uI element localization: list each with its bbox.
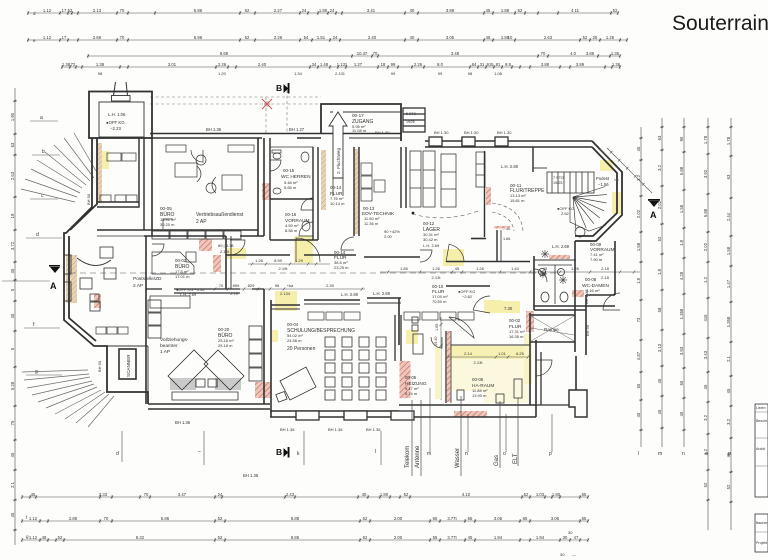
room SCANNER bbox=[107, 346, 148, 404]
svg-text:84: 84 bbox=[472, 62, 477, 67]
svg-text:45: 45 bbox=[10, 512, 15, 517]
svg-text:3.92: 3.92 bbox=[703, 169, 708, 178]
room LAGER bbox=[471, 151, 501, 262]
svg-text:2.02: 2.02 bbox=[636, 209, 641, 218]
seminar tables grid bbox=[325, 337, 386, 400]
svg-text:ELT: ELT bbox=[513, 453, 519, 464]
dimension row bottom1 bbox=[21, 495, 589, 498]
section marker A right bbox=[648, 199, 660, 220]
svg-text:7 STG: 7 STG bbox=[553, 176, 564, 180]
svg-text:45: 45 bbox=[486, 35, 491, 40]
chair hatch marks bbox=[171, 378, 240, 390]
corridor dashed centerline bbox=[70, 272, 560, 274]
svg-text:00-12: 00-12 bbox=[423, 221, 435, 226]
corridor walls bbox=[226, 236, 530, 289]
svg-text:00-20: 00-20 bbox=[218, 327, 230, 332]
room FLUR 00-02 and Rampe bbox=[490, 286, 575, 352]
svg-text:5.88: 5.88 bbox=[679, 166, 684, 175]
svg-text:l: l bbox=[638, 451, 639, 457]
svg-text:2.86: 2.86 bbox=[69, 516, 78, 521]
svg-text:10.14 m: 10.14 m bbox=[330, 201, 345, 206]
svg-text:13.90 m: 13.90 m bbox=[472, 393, 487, 398]
svg-text:1.26: 1.26 bbox=[255, 258, 264, 263]
svg-text:Bauherr: Bauherr bbox=[756, 521, 768, 525]
svg-text:52: 52 bbox=[703, 482, 708, 487]
svg-text:45: 45 bbox=[486, 8, 491, 13]
svg-text:24: 24 bbox=[218, 492, 223, 497]
svg-text:00-05: 00-05 bbox=[160, 206, 172, 211]
svg-text:—: — bbox=[572, 552, 576, 557]
window pilasters bottom schulung bbox=[296, 411, 414, 420]
svg-text:1.8: 1.8 bbox=[636, 277, 641, 283]
svg-text:899: 899 bbox=[233, 283, 240, 288]
svg-text:BH 1.30: BH 1.30 bbox=[434, 130, 449, 135]
svg-text:52: 52 bbox=[68, 8, 73, 13]
svg-text:3.06: 3.06 bbox=[494, 516, 503, 521]
FLUR/TREPPE dashed door arcs bbox=[492, 203, 523, 231]
svg-text:B: B bbox=[276, 447, 282, 457]
svg-text:52: 52 bbox=[218, 516, 223, 521]
svg-text:2.69: 2.69 bbox=[93, 35, 102, 40]
svg-text:00-10: 00-10 bbox=[432, 284, 444, 289]
svg-text:3.06: 3.06 bbox=[551, 516, 560, 521]
svg-text:2.39: 2.39 bbox=[326, 283, 335, 288]
svg-text:2.62: 2.62 bbox=[561, 211, 570, 216]
svg-text:n: n bbox=[682, 451, 685, 457]
svg-text:52: 52 bbox=[363, 516, 368, 521]
room ZUGANG bbox=[321, 104, 401, 141]
svg-text:3.88: 3.88 bbox=[446, 8, 455, 13]
svg-text:BH 1.36: BH 1.36 bbox=[280, 427, 295, 432]
svg-text:25.18 m: 25.18 m bbox=[218, 343, 233, 348]
svg-text:8.0: 8.0 bbox=[437, 62, 443, 67]
svg-text:24.58 m: 24.58 m bbox=[287, 338, 302, 343]
svg-text:52: 52 bbox=[404, 492, 409, 497]
lightwell room top-left bbox=[89, 92, 152, 139]
svg-text:2 AP: 2 AP bbox=[196, 219, 207, 225]
svg-text:96: 96 bbox=[275, 283, 280, 288]
svg-text:1.12: 1.12 bbox=[43, 35, 52, 40]
svg-text:00-16: 00-16 bbox=[285, 212, 297, 217]
svg-text:2.00: 2.00 bbox=[394, 535, 403, 540]
svg-text:2. Fluchtweg: 2. Fluchtweg bbox=[336, 148, 341, 174]
cabinet column right bbox=[148, 300, 262, 381]
svg-text:65: 65 bbox=[582, 492, 587, 497]
svg-text:1.58: 1.58 bbox=[679, 204, 684, 213]
svg-text:00-02: 00-02 bbox=[175, 258, 187, 263]
EDV racks bbox=[361, 163, 385, 201]
svg-text:2.43: 2.43 bbox=[286, 492, 295, 497]
svg-text:d: d bbox=[116, 451, 119, 457]
svg-text:2.13t: 2.13t bbox=[432, 275, 442, 280]
dimension row top1 bbox=[27, 11, 619, 14]
svg-text:55: 55 bbox=[433, 535, 438, 540]
svg-text:A: A bbox=[50, 281, 57, 291]
top exterior wall west section bbox=[150, 134, 321, 139]
svg-text:+ka: +ka bbox=[287, 283, 294, 288]
svg-text:1.8: 1.8 bbox=[679, 239, 684, 245]
svg-text:L.H. 2.69: L.H. 2.69 bbox=[373, 291, 391, 296]
rooms Poststelle and BUERO 00-02 bbox=[97, 230, 144, 236]
svg-text:8.58 m: 8.58 m bbox=[285, 228, 298, 233]
svg-text:2.02: 2.02 bbox=[703, 242, 708, 251]
svg-text:2.18: 2.18 bbox=[601, 266, 610, 271]
svg-text:65: 65 bbox=[433, 516, 438, 521]
svg-text:30: 30 bbox=[560, 552, 565, 557]
svg-text:L.H. 2.69: L.H. 2.69 bbox=[341, 292, 359, 297]
svg-text:52: 52 bbox=[524, 492, 529, 497]
room EDV-TECHNIK bbox=[359, 147, 406, 236]
svg-text:915: 915 bbox=[487, 62, 495, 67]
svg-text:BH 90: BH 90 bbox=[97, 360, 102, 372]
cabinet row below office bbox=[152, 231, 241, 239]
svg-text:3.2: 3.2 bbox=[726, 418, 731, 424]
svg-text:40: 40 bbox=[410, 8, 415, 13]
svg-text:1.08: 1.08 bbox=[494, 71, 503, 76]
svg-text:BH 1.36: BH 1.36 bbox=[366, 427, 381, 432]
svg-text:1.2: 1.2 bbox=[703, 276, 708, 282]
svg-text:24: 24 bbox=[330, 8, 335, 13]
svg-text:o: o bbox=[503, 451, 506, 457]
bottom grid letters bbox=[122, 388, 552, 465]
svg-text:4.87: 4.87 bbox=[636, 351, 641, 360]
svg-text:17.01 m: 17.01 m bbox=[175, 274, 190, 279]
svg-text:g: g bbox=[35, 369, 38, 375]
svg-text:Projekt: Projekt bbox=[756, 541, 767, 545]
svg-text:72: 72 bbox=[71, 62, 76, 67]
exterior spiral stair top bbox=[114, 82, 128, 96]
top exterior wall with pilasters bbox=[425, 141, 592, 147]
svg-text:45: 45 bbox=[636, 146, 641, 151]
room Vertriebsaussendienst walls bbox=[144, 138, 264, 236]
svg-text:00-02: 00-02 bbox=[509, 318, 521, 323]
bay windows west bbox=[64, 255, 71, 301]
svg-text:45: 45 bbox=[468, 535, 473, 540]
yellow wash HA-RAUM corridor bbox=[446, 345, 530, 403]
svg-text:5 STG: 5 STG bbox=[406, 112, 416, 116]
title block tables bbox=[755, 404, 768, 552]
svg-text:o: o bbox=[705, 451, 708, 457]
svg-text:2.18: 2.18 bbox=[601, 275, 610, 280]
svg-text:2.131: 2.131 bbox=[335, 71, 346, 76]
svg-text:3.43: 3.43 bbox=[703, 350, 708, 359]
svg-text:70: 70 bbox=[120, 35, 125, 40]
dimension row top2 bbox=[27, 38, 628, 41]
svg-text:3.93: 3.93 bbox=[679, 346, 684, 355]
svg-text:24: 24 bbox=[333, 35, 338, 40]
utility lines Telekom Antenne Wasser Gas ELT bbox=[412, 396, 518, 476]
svg-text:00-04: 00-04 bbox=[287, 322, 299, 327]
svg-text:45: 45 bbox=[679, 411, 684, 416]
svg-text:2.40: 2.40 bbox=[368, 35, 377, 40]
svg-text:00-09: 00-09 bbox=[590, 242, 602, 247]
svg-text:Souterrain: Souterrain bbox=[672, 12, 768, 35]
svg-text:8.32: 8.32 bbox=[136, 535, 145, 540]
svg-text:52: 52 bbox=[58, 535, 63, 540]
exterior wall west (office block left) bbox=[64, 138, 148, 404]
HA-RAUM dim line bbox=[447, 355, 530, 358]
svg-text:Gas: Gas bbox=[494, 455, 500, 466]
svg-text:3.01: 3.01 bbox=[168, 62, 177, 67]
svg-text:3.2: 3.2 bbox=[703, 414, 708, 420]
svg-text:1.80: 1.80 bbox=[380, 492, 389, 497]
svg-text:1.38: 1.38 bbox=[96, 62, 105, 67]
svg-text:3.33: 3.33 bbox=[99, 492, 108, 497]
svg-text:00-14: 00-14 bbox=[330, 185, 342, 190]
svg-text:7.90 m: 7.90 m bbox=[590, 257, 603, 262]
svg-text:Archit: Archit bbox=[756, 447, 765, 451]
svg-text:2.13t: 2.13t bbox=[474, 360, 484, 365]
svg-text:63: 63 bbox=[657, 135, 662, 140]
svg-text:–: – bbox=[198, 449, 201, 455]
svg-text:70: 70 bbox=[219, 283, 224, 288]
svg-text:1 AP: 1 AP bbox=[160, 349, 170, 355]
turret corner top-right bbox=[575, 141, 622, 241]
svg-text:BH 1.30: BH 1.30 bbox=[464, 130, 479, 135]
svg-text:58: 58 bbox=[657, 307, 662, 312]
svg-text:2.26: 2.26 bbox=[414, 62, 423, 67]
svg-text:2.00: 2.00 bbox=[384, 234, 393, 239]
svg-text:3.47: 3.47 bbox=[178, 492, 187, 497]
svg-text:BH 1.36: BH 1.36 bbox=[328, 427, 343, 432]
svg-text:BH 1.36: BH 1.36 bbox=[206, 127, 222, 132]
svg-text:23.25 m: 23.25 m bbox=[334, 265, 349, 270]
svg-text:16.35 m: 16.35 m bbox=[509, 334, 524, 339]
svg-text:11.36 m: 11.36 m bbox=[364, 221, 379, 226]
svg-text:54: 54 bbox=[304, 35, 309, 40]
svg-text:52: 52 bbox=[726, 484, 731, 489]
svg-text:40: 40 bbox=[410, 35, 415, 40]
svg-text:L.H. 2.69: L.H. 2.69 bbox=[423, 243, 440, 248]
yellow highlight patches bbox=[99, 151, 109, 169]
svg-text:1.34: 1.34 bbox=[294, 71, 303, 76]
svg-text:00-06: 00-06 bbox=[472, 377, 484, 382]
svg-text:0.74 m: 0.74 m bbox=[405, 391, 418, 396]
svg-text:4.11: 4.11 bbox=[571, 8, 580, 13]
svg-text:65: 65 bbox=[523, 516, 528, 521]
svg-text:3.05: 3.05 bbox=[446, 35, 455, 40]
svg-text:4.28: 4.28 bbox=[679, 271, 684, 280]
svg-text:45: 45 bbox=[726, 388, 731, 393]
svg-text:65: 65 bbox=[582, 516, 587, 521]
svg-text:00-05: 00-05 bbox=[405, 375, 417, 380]
svg-text:2.44: 2.44 bbox=[726, 212, 731, 221]
svg-text:3.77t: 3.77t bbox=[447, 535, 457, 540]
svg-text:SCANNER: SCANNER bbox=[126, 354, 131, 377]
svg-text:19/25: 19/25 bbox=[406, 120, 415, 124]
section marker B top bbox=[276, 83, 290, 94]
ramp symbol bbox=[531, 316, 574, 341]
corridor dim line y264 bbox=[248, 262, 330, 265]
svg-text:5.96: 5.96 bbox=[194, 35, 203, 40]
svg-text:2.1: 2.1 bbox=[726, 355, 731, 361]
svg-text:00-08: 00-08 bbox=[585, 277, 597, 282]
svg-text:1.358: 1.358 bbox=[726, 316, 731, 327]
svg-text:99: 99 bbox=[391, 62, 396, 67]
svg-text:1.58: 1.58 bbox=[726, 246, 731, 255]
svg-text:2.19t: 2.19t bbox=[279, 266, 289, 271]
speaker table bbox=[276, 367, 316, 402]
wall left of stair bbox=[533, 147, 547, 172]
room WC-DAMEN bbox=[530, 241, 615, 355]
svg-text:1.12: 1.12 bbox=[29, 516, 38, 521]
svg-text:Listen: Listen bbox=[756, 406, 766, 410]
pink wall strip vorraum/wc-damen bbox=[549, 255, 570, 259]
svg-text:2.00: 2.00 bbox=[394, 516, 403, 521]
svg-text:Vertriebsaußendienst: Vertriebsaußendienst bbox=[196, 212, 244, 218]
corridor dimension line bbox=[380, 270, 640, 273]
svg-text:45: 45 bbox=[10, 452, 15, 457]
room Vollziehungsbeamter BUERO 00-20 bbox=[146, 236, 271, 417]
svg-text:A: A bbox=[650, 210, 657, 220]
exterior ramp corridor walls bbox=[536, 352, 587, 417]
svg-text:1.94: 1.94 bbox=[494, 535, 503, 540]
svg-text:30.42 m: 30.42 m bbox=[423, 237, 438, 242]
svg-text:98: 98 bbox=[468, 71, 473, 76]
svg-text:63: 63 bbox=[726, 174, 731, 179]
svg-text:8.86: 8.86 bbox=[291, 535, 300, 540]
svg-text:70.50 m: 70.50 m bbox=[432, 299, 447, 304]
svg-text:2.14: 2.14 bbox=[464, 351, 473, 356]
svg-text:34: 34 bbox=[312, 62, 317, 67]
svg-text:p: p bbox=[549, 451, 552, 457]
svg-text:00-13: 00-13 bbox=[363, 206, 375, 211]
dimension row top3 bbox=[87, 54, 621, 57]
terrain hatch upper left bbox=[21, 133, 99, 202]
svg-text:1.66: 1.66 bbox=[503, 237, 510, 241]
svg-text:2.1: 2.1 bbox=[10, 481, 15, 487]
heizung vertical dim bbox=[440, 317, 443, 400]
svg-text:m: m bbox=[658, 451, 662, 457]
svg-text:19.40: 19.40 bbox=[434, 336, 438, 346]
svg-text:52: 52 bbox=[245, 8, 250, 13]
svg-text:70: 70 bbox=[541, 51, 546, 56]
svg-text:3.89: 3.89 bbox=[576, 62, 585, 67]
svg-text:73: 73 bbox=[636, 317, 641, 322]
sub numbers below row4 bbox=[98, 71, 503, 76]
svg-text:B: B bbox=[276, 83, 282, 93]
svg-text:1.90: 1.90 bbox=[10, 112, 15, 121]
svg-text:d: d bbox=[36, 232, 39, 238]
svg-text:1.85: 1.85 bbox=[400, 266, 409, 271]
svg-text:45: 45 bbox=[636, 412, 641, 417]
svg-text:BH 1.36: BH 1.36 bbox=[175, 420, 191, 425]
svg-text:65: 65 bbox=[636, 383, 641, 388]
svg-text:2.26: 2.26 bbox=[274, 35, 283, 40]
tan hatched wall strips bbox=[354, 149, 359, 234]
svg-text:1.03: 1.03 bbox=[536, 492, 545, 497]
turret interior walls bbox=[544, 227, 585, 260]
svg-text:l: l bbox=[375, 449, 376, 455]
svg-text:1.8: 1.8 bbox=[657, 268, 662, 274]
cabinets at bay bottom bbox=[96, 327, 128, 334]
desks office bbox=[163, 145, 254, 229]
svg-text:30.20 m: 30.20 m bbox=[160, 222, 175, 227]
svg-text:8.99: 8.99 bbox=[274, 258, 283, 263]
svg-text:45: 45 bbox=[703, 384, 708, 389]
svg-text:3.13: 3.13 bbox=[657, 343, 662, 352]
svg-text:3.41: 3.41 bbox=[367, 8, 376, 13]
svg-text:BH 1.30: BH 1.30 bbox=[497, 130, 512, 135]
svg-text:2.63: 2.63 bbox=[10, 171, 15, 180]
fan symbols wc-damen bbox=[539, 250, 567, 284]
bay office interior bbox=[77, 247, 116, 311]
pink hatched wall patches bbox=[199, 239, 212, 251]
svg-text:Antenne: Antenne bbox=[415, 445, 421, 468]
svg-text:6.25: 6.25 bbox=[516, 351, 525, 356]
svg-text:1.12: 1.12 bbox=[43, 8, 52, 13]
escape arrow 2. Fluchtweg bbox=[329, 112, 347, 178]
room SCHULUNG/BESPRECHUNG bbox=[270, 298, 536, 417]
pink wall strip heizung/ha-raum bbox=[447, 331, 451, 402]
svg-text:1.01: 1.01 bbox=[498, 351, 507, 356]
svg-text:1.358: 1.358 bbox=[679, 308, 684, 319]
svg-text:1.94: 1.94 bbox=[536, 535, 545, 540]
svg-text:70: 70 bbox=[120, 8, 125, 13]
svg-text:Wasser: Wasser bbox=[455, 448, 461, 468]
svg-text:70: 70 bbox=[373, 51, 378, 56]
svg-text:1.80: 1.80 bbox=[319, 8, 328, 13]
section marker A left bbox=[49, 265, 60, 291]
wc fixtures herren bbox=[272, 150, 310, 231]
svg-text:2.26: 2.26 bbox=[218, 62, 227, 67]
turret diagonal dimension ticks bbox=[607, 148, 652, 193]
svg-text:1.131: 1.131 bbox=[337, 62, 348, 67]
cabinets BUERO top-left bbox=[100, 153, 137, 202]
svg-text:2.13: 2.13 bbox=[93, 8, 102, 13]
svg-text:65: 65 bbox=[468, 516, 473, 521]
svg-text:52: 52 bbox=[613, 8, 618, 13]
svg-text:BH 1.27: BH 1.27 bbox=[289, 127, 305, 132]
room BUERO top-left bbox=[97, 138, 144, 230]
svg-text:5.86: 5.86 bbox=[194, 8, 203, 13]
svg-text:1.36: 1.36 bbox=[612, 62, 621, 67]
dimension columns right bbox=[639, 127, 642, 447]
svg-text:BH 90: BH 90 bbox=[585, 324, 590, 336]
svg-text:20 Personen: 20 Personen bbox=[287, 346, 316, 352]
rooms HEIZUNG and HA-RAUM bbox=[395, 313, 536, 417]
svg-text:1.78: 1.78 bbox=[703, 135, 708, 144]
svg-text:40: 40 bbox=[362, 492, 367, 497]
svg-text:15.81 m: 15.81 m bbox=[510, 198, 525, 203]
svg-text:52: 52 bbox=[363, 535, 368, 540]
svg-text:2.13t: 2.13t bbox=[220, 249, 230, 254]
svg-text:8.5: 8.5 bbox=[505, 62, 511, 67]
svg-text:1.05: 1.05 bbox=[435, 324, 439, 331]
LAGER storage racks bbox=[410, 151, 485, 207]
svg-text:17: 17 bbox=[62, 8, 67, 13]
svg-text:2.27: 2.27 bbox=[274, 8, 283, 13]
svg-text:b: b bbox=[42, 149, 45, 155]
svg-text:52: 52 bbox=[518, 8, 523, 13]
dimension row bottom3 bbox=[21, 538, 589, 541]
room WC HERREN bbox=[270, 138, 318, 240]
stair flight FLUR/TREPPE bbox=[547, 172, 594, 193]
svg-text:99: 99 bbox=[391, 71, 396, 76]
svg-text:Vollziehungs-: Vollziehungs- bbox=[160, 337, 189, 343]
svg-text:1.26: 1.26 bbox=[432, 266, 441, 271]
svg-text:52: 52 bbox=[583, 35, 588, 40]
svg-text:1.38: 1.38 bbox=[62, 62, 71, 67]
winder stairs bbox=[570, 187, 607, 232]
svg-text:45: 45 bbox=[31, 492, 36, 497]
svg-text:10.37: 10.37 bbox=[357, 51, 368, 56]
svg-text:75: 75 bbox=[10, 420, 15, 425]
svg-text:−2.23: −2.23 bbox=[110, 126, 121, 131]
svg-text:7.30: 7.30 bbox=[504, 306, 513, 311]
svg-text:n: n bbox=[465, 451, 468, 457]
svg-text:90: 90 bbox=[679, 136, 684, 141]
